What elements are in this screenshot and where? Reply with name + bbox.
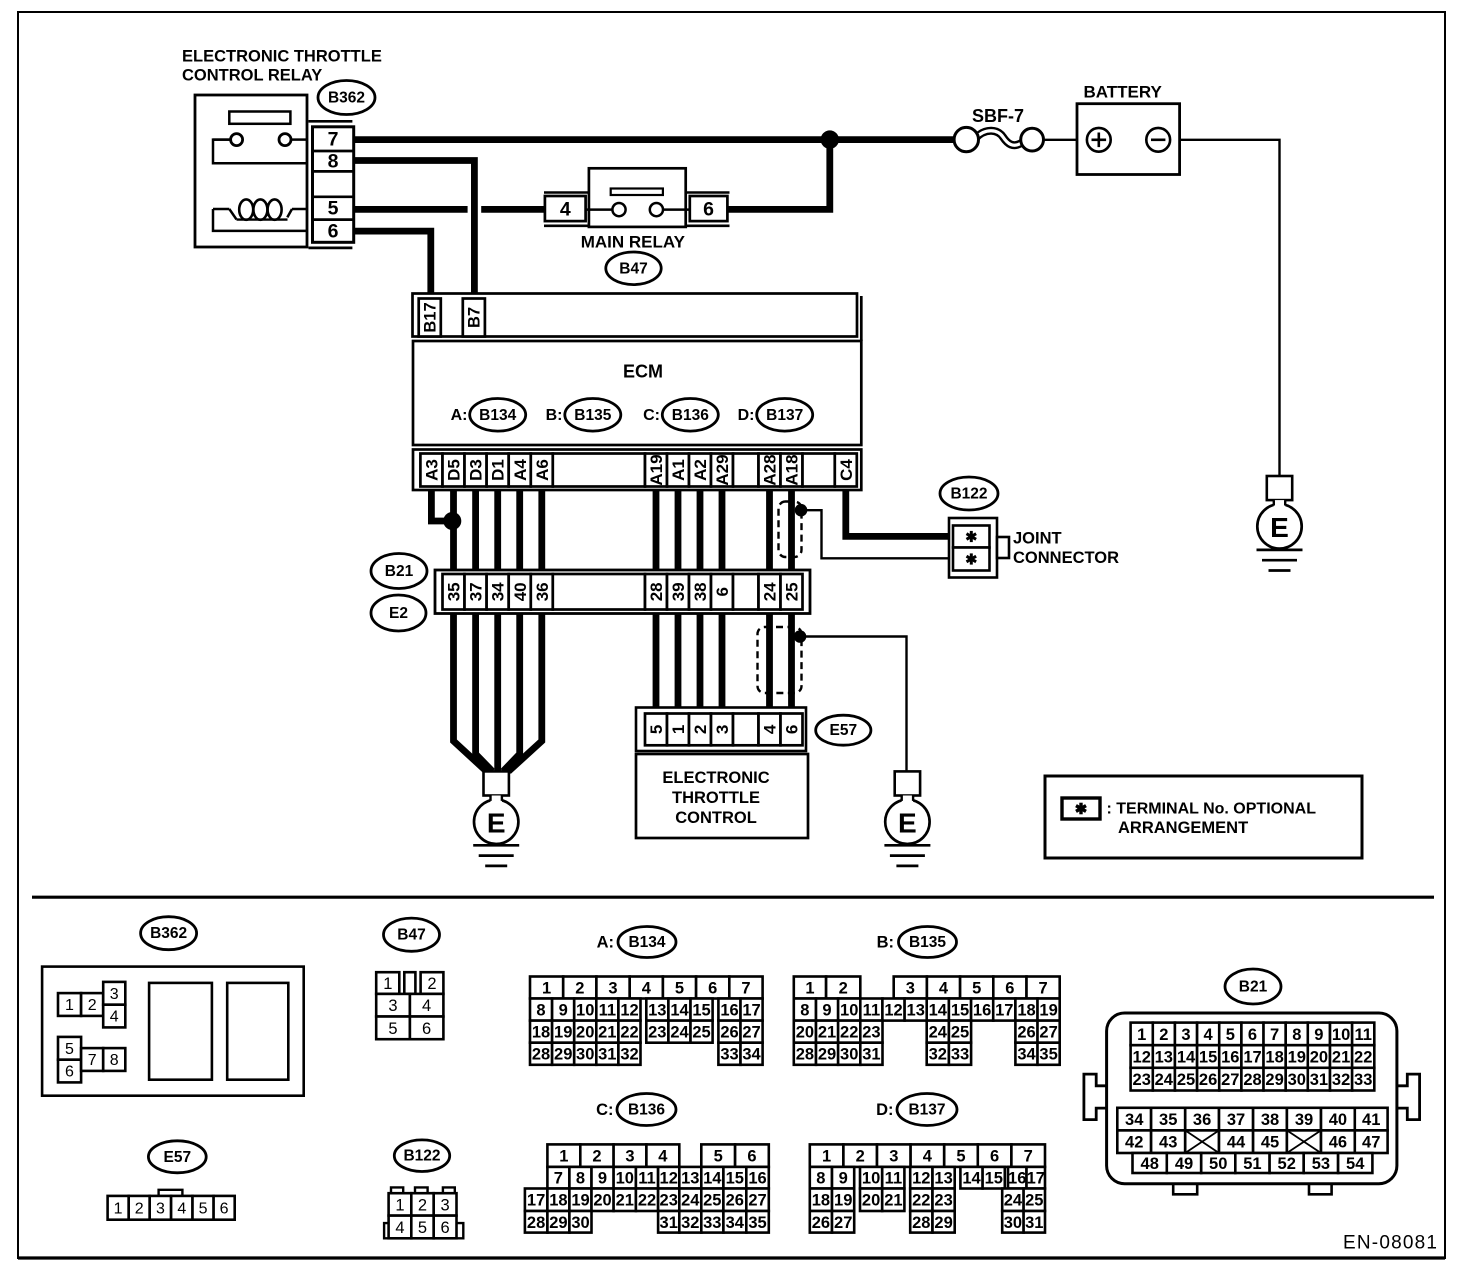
legend asterisk cell — [1062, 798, 1100, 819]
svg-text:6: 6 — [65, 1064, 74, 1081]
svg-text:32: 32 — [1332, 1071, 1350, 1089]
svg-text:6: 6 — [713, 587, 732, 596]
svg-text:11: 11 — [1354, 1026, 1371, 1044]
wire ECM A19 to B21/E2 — [653, 490, 660, 570]
fuse SBF-7 wavy element — [976, 131, 1024, 145]
svg-text:24: 24 — [761, 582, 780, 601]
svg-text:5: 5 — [388, 1020, 397, 1038]
ECM top connector strip — [413, 294, 858, 337]
main relay wing lines — [544, 191, 590, 194]
wire ECM D5 to B21/E2 — [450, 490, 457, 570]
wire main relay pin6 up to junction on battery feed — [728, 140, 830, 210]
svg-text:39: 39 — [1295, 1111, 1313, 1129]
svg-text:26: 26 — [726, 1192, 744, 1210]
svg-text:2: 2 — [418, 1196, 427, 1214]
svg-text:24: 24 — [670, 1024, 689, 1042]
svg-text:22: 22 — [840, 1024, 858, 1042]
svg-text:45: 45 — [1261, 1134, 1279, 1152]
B21/E2 pin cells — [443, 574, 465, 610]
svg-text:13: 13 — [934, 1170, 952, 1188]
svg-text:10: 10 — [616, 1170, 634, 1188]
svg-text:12: 12 — [660, 1170, 678, 1188]
svg-text:E57: E57 — [830, 722, 858, 739]
wire ECM D3 to B21/E2 — [472, 490, 479, 570]
svg-text:20: 20 — [576, 1024, 594, 1042]
svg-text:B47: B47 — [619, 260, 647, 277]
svg-text:C4: C4 — [837, 459, 856, 481]
svg-text:B:: B: — [546, 407, 563, 424]
wire B21/E2 25-6 to E57 — [788, 614, 795, 708]
svg-text:14: 14 — [962, 1170, 981, 1188]
svg-text:25: 25 — [703, 1192, 721, 1210]
main relay contact lines — [586, 208, 613, 211]
svg-text:2: 2 — [427, 975, 436, 993]
svg-text:27: 27 — [742, 1024, 760, 1042]
svg-text:31: 31 — [1025, 1214, 1043, 1232]
svg-text:A:: A: — [451, 407, 468, 424]
ECM body — [413, 341, 861, 445]
svg-text:11: 11 — [599, 1002, 616, 1020]
svg-text:25: 25 — [692, 1024, 710, 1042]
svg-text:7: 7 — [741, 980, 750, 998]
svg-text:35: 35 — [445, 582, 464, 601]
svg-text:37: 37 — [1227, 1111, 1245, 1129]
svg-text:29: 29 — [1265, 1071, 1283, 1089]
frame bottom thick line — [18, 1256, 1445, 1259]
svg-text:28: 28 — [912, 1214, 930, 1232]
svg-text:C:: C: — [596, 1101, 613, 1119]
svg-text:43: 43 — [1159, 1134, 1177, 1152]
fuse SBF-7 right terminal — [1021, 128, 1044, 151]
relay B362 switch contact wiring — [213, 138, 231, 141]
pin B17 cell — [419, 299, 441, 337]
svg-text:9: 9 — [822, 1002, 831, 1020]
pinout B122 tabs — [391, 1187, 403, 1193]
svg-text:34: 34 — [726, 1214, 745, 1232]
svg-text:5: 5 — [199, 1200, 208, 1217]
svg-text:E: E — [898, 807, 917, 838]
svg-text:22: 22 — [1354, 1049, 1372, 1067]
svg-text:3: 3 — [889, 1148, 898, 1166]
svg-text:36: 36 — [1193, 1111, 1211, 1129]
svg-text:JOINT: JOINT — [1013, 530, 1062, 548]
svg-text:6: 6 — [708, 980, 717, 998]
svg-text:40: 40 — [1329, 1111, 1347, 1129]
legend box — [1045, 776, 1362, 858]
svg-text:24: 24 — [681, 1192, 700, 1210]
svg-text:38: 38 — [1261, 1111, 1279, 1129]
wire B362 pin5 to main relay pin4 (left segment of crossing) — [353, 206, 468, 213]
svg-text:27: 27 — [1221, 1071, 1239, 1089]
svg-text:1: 1 — [114, 1200, 123, 1217]
svg-text:B21: B21 — [385, 563, 414, 580]
svg-text:24: 24 — [1004, 1192, 1023, 1210]
svg-text:7: 7 — [88, 1052, 97, 1069]
svg-text:21: 21 — [884, 1192, 902, 1210]
svg-text:3: 3 — [608, 980, 617, 998]
svg-text:13: 13 — [681, 1170, 699, 1188]
svg-text:2: 2 — [88, 997, 97, 1014]
svg-text:4: 4 — [422, 997, 431, 1015]
svg-text:1: 1 — [542, 980, 551, 998]
connector B21/E2 row — [435, 570, 810, 614]
main relay body — [589, 168, 686, 227]
main relay contact right — [650, 203, 663, 216]
svg-text:34: 34 — [1125, 1111, 1144, 1129]
svg-text:28: 28 — [527, 1214, 545, 1232]
ground E right (battery ground) — [1267, 476, 1292, 500]
svg-text:29: 29 — [934, 1214, 952, 1232]
wire ECM C4 to joint connector — [846, 490, 950, 536]
svg-text:23: 23 — [648, 1024, 666, 1042]
electronic throttle control box — [636, 754, 808, 838]
svg-text:B135: B135 — [574, 407, 611, 424]
wire ECM A4 to B21/E2 — [516, 490, 523, 570]
svg-text:CONTROL RELAY: CONTROL RELAY — [182, 67, 322, 85]
svg-text:26: 26 — [812, 1214, 830, 1232]
svg-text:A:: A: — [597, 934, 614, 952]
svg-text:15: 15 — [951, 1002, 969, 1020]
pinout B21 right bracket — [1396, 1074, 1420, 1120]
svg-text:38: 38 — [691, 582, 710, 601]
pinout B122 label — [394, 1140, 449, 1172]
svg-text:5: 5 — [418, 1219, 427, 1237]
svg-text:31: 31 — [1310, 1071, 1328, 1089]
svg-text:25: 25 — [783, 582, 802, 601]
svg-text:5: 5 — [972, 980, 981, 998]
svg-text:44: 44 — [1227, 1134, 1246, 1152]
svg-text:33: 33 — [720, 1046, 738, 1064]
wire ECM A2 to B21/E2 — [697, 490, 704, 570]
pinout E57 cells — [108, 1196, 129, 1220]
svg-text:29: 29 — [818, 1046, 836, 1064]
wire bundle 35/37/34/40/36 funnel to ground — [454, 614, 487, 772]
svg-text:B:: B: — [877, 934, 894, 952]
shield dot A18 — [795, 504, 808, 517]
svg-text:16: 16 — [973, 1002, 991, 1020]
pinout B21 bottom tabs — [1173, 1184, 1197, 1195]
relay B362 body — [195, 95, 307, 247]
pinout B47 cells — [376, 972, 399, 994]
svg-text:52: 52 — [1278, 1155, 1296, 1173]
svg-text:24: 24 — [1155, 1071, 1174, 1089]
svg-text:THROTTLE: THROTTLE — [672, 789, 760, 807]
ECM bottom pin row — [413, 450, 861, 491]
svg-text:SBF-7: SBF-7 — [972, 106, 1024, 126]
svg-text:19: 19 — [554, 1024, 572, 1042]
svg-text:E57: E57 — [164, 1149, 192, 1166]
svg-text:2: 2 — [135, 1200, 144, 1217]
svg-text:D:: D: — [876, 1101, 893, 1119]
dashed optional connector box around 24/25 wires — [758, 627, 802, 693]
svg-text:EN-08081: EN-08081 — [1343, 1233, 1438, 1254]
svg-text:B134: B134 — [479, 407, 516, 424]
dashed optional connector box around A18 wire — [779, 502, 802, 558]
pinout B136 grid — [547, 1144, 580, 1167]
svg-text:B7: B7 — [465, 307, 483, 328]
svg-text:13: 13 — [648, 1002, 666, 1020]
svg-text:53: 53 — [1312, 1155, 1330, 1173]
svg-text:18: 18 — [532, 1024, 550, 1042]
svg-text:14: 14 — [703, 1170, 722, 1188]
svg-text:25: 25 — [951, 1024, 969, 1042]
svg-text:33: 33 — [703, 1214, 721, 1232]
section divider line — [32, 896, 1434, 899]
svg-text:21: 21 — [818, 1024, 836, 1042]
svg-text:6: 6 — [328, 221, 339, 243]
svg-text:20: 20 — [796, 1024, 814, 1042]
svg-text:35: 35 — [1159, 1111, 1177, 1129]
svg-text:48: 48 — [1141, 1155, 1159, 1173]
pinout E57 label — [148, 1141, 206, 1173]
svg-text:23: 23 — [934, 1192, 952, 1210]
svg-text:47: 47 — [1362, 1134, 1380, 1152]
pinout B362 cells 1-8 — [58, 993, 81, 1016]
svg-text:2: 2 — [691, 725, 710, 734]
pinout B362 label — [141, 917, 197, 950]
junction dot A3/D5 — [443, 512, 461, 530]
svg-text:19: 19 — [1288, 1049, 1306, 1067]
svg-text:9: 9 — [839, 1170, 848, 1188]
pinout B135 grid — [794, 977, 826, 999]
svg-text:13: 13 — [1155, 1049, 1173, 1067]
svg-text:7: 7 — [328, 129, 339, 151]
svg-text:2: 2 — [592, 1148, 601, 1166]
svg-text:10: 10 — [1332, 1026, 1350, 1044]
pinout B47 label — [384, 918, 440, 951]
wire ECM A1 to B21/E2 — [675, 490, 682, 570]
svg-text:27: 27 — [1039, 1024, 1057, 1042]
wire ECM D1 to B21/E2 — [494, 490, 501, 570]
svg-text:11: 11 — [638, 1170, 655, 1188]
svg-text:15: 15 — [726, 1170, 744, 1188]
connector label E57 — [816, 715, 871, 745]
svg-text:25: 25 — [1177, 1071, 1195, 1089]
svg-text:29: 29 — [549, 1214, 567, 1232]
svg-text:32: 32 — [681, 1214, 699, 1232]
svg-text:18: 18 — [549, 1192, 567, 1210]
svg-text:18: 18 — [812, 1192, 830, 1210]
pinout B21 housing — [1107, 1013, 1397, 1184]
main relay pin 4 box — [545, 196, 586, 221]
svg-text:B362: B362 — [328, 90, 365, 107]
svg-text:3: 3 — [388, 997, 397, 1015]
svg-text:20: 20 — [1310, 1049, 1328, 1067]
svg-text:B136: B136 — [628, 1102, 665, 1119]
svg-text:19: 19 — [834, 1192, 852, 1210]
svg-text:3: 3 — [906, 980, 915, 998]
svg-text:1: 1 — [1137, 1026, 1146, 1044]
svg-text:16: 16 — [1221, 1049, 1239, 1067]
svg-text:6: 6 — [1005, 980, 1014, 998]
svg-text:D3: D3 — [467, 459, 486, 481]
svg-text:3: 3 — [625, 1148, 634, 1166]
svg-text:D5: D5 — [445, 459, 464, 481]
svg-text:12: 12 — [620, 1002, 638, 1020]
svg-text:E2: E2 — [389, 605, 408, 622]
svg-text:12: 12 — [884, 1002, 902, 1020]
svg-text:2: 2 — [575, 980, 584, 998]
svg-text:49: 49 — [1175, 1155, 1193, 1173]
svg-text:ECM: ECM — [623, 362, 663, 382]
svg-text:27: 27 — [748, 1192, 766, 1210]
svg-text:33: 33 — [951, 1046, 969, 1064]
svg-text:A29: A29 — [713, 454, 732, 485]
svg-text:1: 1 — [669, 725, 688, 734]
svg-text:4: 4 — [923, 1148, 933, 1166]
svg-text:CONTROL: CONTROL — [675, 809, 757, 827]
main relay contact left — [612, 203, 625, 216]
svg-text:12: 12 — [912, 1170, 930, 1188]
svg-text:7: 7 — [554, 1170, 563, 1188]
E57 pin cells — [645, 714, 667, 746]
svg-text:21: 21 — [1332, 1049, 1350, 1067]
wire B362 pin8 to ECM B7 — [353, 161, 474, 299]
svg-text:A1: A1 — [669, 459, 688, 481]
pin B7 cell — [463, 299, 485, 337]
ECM pin cells — [420, 454, 442, 487]
svg-text:25: 25 — [1025, 1192, 1043, 1210]
svg-text:E: E — [487, 807, 506, 838]
svg-text:28: 28 — [1243, 1071, 1261, 1089]
wire ECM A18 to B21/E2 — [788, 490, 795, 570]
svg-text:A19: A19 — [647, 454, 666, 485]
svg-text:4: 4 — [761, 724, 780, 734]
svg-text:6: 6 — [783, 725, 802, 734]
svg-text:32: 32 — [620, 1046, 638, 1064]
svg-text:32: 32 — [929, 1046, 947, 1064]
svg-text:54: 54 — [1346, 1155, 1365, 1173]
svg-text:C:: C: — [643, 407, 660, 424]
svg-text:31: 31 — [660, 1214, 678, 1232]
svg-text:12: 12 — [1133, 1049, 1151, 1067]
connector label B362 — [318, 81, 375, 115]
svg-text:7: 7 — [1024, 1148, 1033, 1166]
svg-text:11: 11 — [863, 1002, 880, 1020]
svg-text:50: 50 — [1209, 1155, 1227, 1173]
pinout B21 mid grid 34-47 — [1117, 1108, 1151, 1131]
connector E57 row — [636, 708, 806, 752]
svg-text:28: 28 — [796, 1046, 814, 1064]
pinout B21 left bracket — [1084, 1074, 1108, 1120]
svg-text:1: 1 — [822, 1148, 831, 1166]
svg-text:1: 1 — [65, 997, 74, 1014]
svg-text:4: 4 — [110, 1009, 119, 1026]
svg-text:40: 40 — [511, 582, 530, 601]
svg-text:5: 5 — [65, 1041, 74, 1058]
wire B21/E2 28-5 to E57 — [653, 614, 660, 708]
battery body — [1077, 104, 1180, 175]
svg-text:30: 30 — [1004, 1214, 1022, 1232]
joint connector body — [949, 518, 997, 578]
wire B362 pin7 to SBF-7 fuse (battery feed) — [353, 136, 955, 143]
pinout B122 cells — [389, 1193, 412, 1215]
svg-text:5: 5 — [956, 1148, 965, 1166]
pinout B137 grid — [810, 1144, 844, 1167]
wire B21/E2 38-2 to E57 — [697, 614, 704, 708]
svg-text:3: 3 — [441, 1196, 450, 1214]
wire battery minus terminal to ground E — [1170, 140, 1280, 477]
wire SBF-7 to battery plus terminal — [1044, 139, 1088, 141]
svg-text:21: 21 — [598, 1024, 616, 1042]
svg-text:ELECTRONIC: ELECTRONIC — [662, 769, 769, 787]
svg-text:B134: B134 — [628, 934, 665, 951]
svg-text:6: 6 — [1248, 1026, 1257, 1044]
svg-text:BATTERY: BATTERY — [1084, 83, 1163, 102]
svg-text:4: 4 — [939, 980, 949, 998]
pinout B21 label — [1225, 969, 1281, 1004]
svg-text:6: 6 — [441, 1219, 450, 1237]
svg-text:B362: B362 — [150, 925, 187, 942]
svg-text:B21: B21 — [1239, 979, 1268, 996]
wire B362 pin5 to main relay pin4 (right segment of crossing) — [481, 206, 546, 213]
svg-text:B136: B136 — [672, 407, 709, 424]
svg-text:17: 17 — [1243, 1049, 1261, 1067]
svg-text:B137: B137 — [766, 407, 803, 424]
wire ECM A3 jog to D5 wire — [431, 490, 449, 521]
svg-text:20: 20 — [862, 1192, 880, 1210]
svg-text:14: 14 — [670, 1002, 689, 1020]
svg-text:5: 5 — [328, 198, 339, 220]
svg-text:35: 35 — [748, 1214, 766, 1232]
svg-text:28: 28 — [647, 582, 666, 601]
svg-text:14: 14 — [929, 1002, 948, 1020]
svg-text:4: 4 — [658, 1148, 668, 1166]
svg-text:8: 8 — [576, 1170, 585, 1188]
svg-text:17: 17 — [995, 1002, 1013, 1020]
wire B21/E2 24-4 to E57 — [766, 614, 773, 708]
connector label E2 — [371, 595, 426, 631]
pinout B362 cavity right — [227, 983, 288, 1080]
svg-text:10: 10 — [862, 1170, 880, 1188]
svg-text:6: 6 — [747, 1148, 756, 1166]
svg-text:2: 2 — [839, 980, 848, 998]
svg-text:23: 23 — [1133, 1071, 1151, 1089]
svg-text:29: 29 — [554, 1046, 572, 1064]
svg-text:39: 39 — [669, 582, 688, 601]
svg-text:5: 5 — [675, 980, 684, 998]
thin wire from A18 shield dot to joint connector — [801, 510, 950, 558]
svg-text:A28: A28 — [761, 454, 780, 485]
connector label B122 — [940, 477, 998, 510]
svg-text:30: 30 — [1288, 1071, 1306, 1089]
joint connector tab — [997, 537, 1009, 558]
svg-text:9: 9 — [559, 1002, 568, 1020]
svg-text:14: 14 — [1177, 1049, 1196, 1067]
svg-text:46: 46 — [1329, 1134, 1347, 1152]
svg-text:31: 31 — [598, 1046, 616, 1064]
svg-text:34: 34 — [742, 1046, 761, 1064]
main relay inner bar — [611, 189, 663, 196]
svg-text:1: 1 — [395, 1196, 404, 1214]
pinout B134 grid — [530, 977, 563, 999]
svg-text:35: 35 — [1039, 1046, 1057, 1064]
svg-text:6: 6 — [220, 1200, 229, 1217]
svg-text:8: 8 — [800, 1002, 809, 1020]
svg-text:33: 33 — [1354, 1071, 1372, 1089]
svg-text:26: 26 — [1199, 1071, 1217, 1089]
svg-text:5: 5 — [1226, 1026, 1235, 1044]
battery plus terminal — [1087, 128, 1111, 152]
svg-text:23: 23 — [862, 1024, 880, 1042]
svg-text:B137: B137 — [908, 1102, 945, 1119]
svg-text:3: 3 — [1181, 1026, 1190, 1044]
svg-text:17: 17 — [1027, 1170, 1045, 1188]
svg-text:22: 22 — [638, 1192, 656, 1210]
svg-text:31: 31 — [862, 1046, 880, 1064]
svg-text:5: 5 — [714, 1148, 723, 1166]
svg-text:D1: D1 — [489, 459, 508, 481]
